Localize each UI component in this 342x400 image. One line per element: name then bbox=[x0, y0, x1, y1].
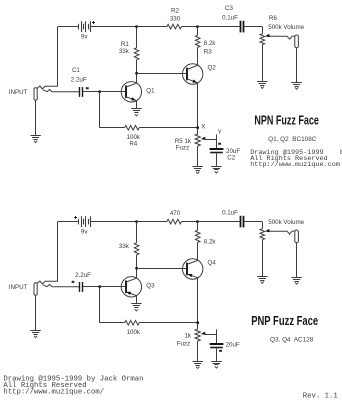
svg-text:C3: C3 bbox=[225, 5, 233, 12]
potentiometer R5 1k Fuzz bbox=[195, 128, 206, 167]
wire: rail to output cap bbox=[198, 221, 240, 223]
wire: fuzz wiper bbox=[205, 329, 217, 334]
label 0.1uF bbox=[222, 210, 238, 217]
wire: battery drop to input jack bbox=[57, 27, 59, 87]
node: rail / R3 / output cap bbox=[196, 25, 199, 28]
potentiometer 1k Fuzz bbox=[195, 323, 206, 362]
label Fuzz bbox=[176, 144, 189, 151]
polarity mark input cap bbox=[72, 281, 75, 283]
label R4 bbox=[129, 141, 137, 148]
polarity mark 20uF cap bbox=[219, 350, 222, 352]
svg-text:R3: R3 bbox=[204, 48, 212, 55]
potentiometer R6 500k Volume bbox=[260, 34, 270, 81]
svg-text:2.2uF: 2.2uF bbox=[71, 76, 87, 83]
label 500k Volume bbox=[268, 219, 304, 226]
svg-text:C2: C2 bbox=[227, 155, 235, 162]
ground: fuzz pot bbox=[193, 362, 203, 369]
wire: Q1 emitter to ground bbox=[136, 101, 138, 109]
transistor Q4 bbox=[183, 259, 203, 279]
potentiometer 500k Volume bbox=[260, 229, 270, 277]
input jack bbox=[34, 281, 79, 295]
transistor Q1 bbox=[121, 82, 141, 102]
wire: rail to output cap bbox=[198, 26, 240, 28]
label C1 bbox=[72, 67, 80, 74]
node: rail / 33k bbox=[135, 220, 138, 223]
wire: Q3 collector to Q4 base bbox=[137, 268, 187, 270]
label 100k bbox=[127, 134, 141, 141]
ground: volume pot bbox=[257, 277, 267, 284]
label 2.2uF bbox=[71, 76, 87, 83]
wire: Q4 emitter to node X bbox=[197, 278, 199, 323]
capacitor C2 20uF bbox=[210, 139, 224, 166]
node: Q1 base / feedback bbox=[98, 90, 101, 93]
svg-text:500k Volume: 500k Volume bbox=[268, 24, 304, 31]
label 470 bbox=[170, 210, 181, 217]
label 0.1uF bbox=[222, 15, 238, 22]
resistor R1 33k bbox=[134, 27, 139, 74]
label X bbox=[201, 124, 205, 131]
label 8.2k bbox=[204, 40, 217, 47]
label 9v bbox=[81, 229, 88, 236]
svg-text:1k: 1k bbox=[184, 332, 191, 339]
label Q3 bbox=[146, 282, 155, 289]
label 20uF bbox=[226, 342, 240, 349]
output jack bbox=[269, 230, 298, 277]
label Q3, Q4 AC128 bbox=[270, 337, 314, 344]
text copyright (right column) bbox=[250, 149, 342, 169]
label Q4 bbox=[208, 260, 217, 267]
wire: supply rail left (NPN) bbox=[58, 26, 137, 28]
capacitor 0.1uF bbox=[241, 216, 263, 229]
label R1 bbox=[121, 41, 129, 48]
svg-text:9v: 9v bbox=[81, 229, 88, 236]
svg-text:Y: Y bbox=[218, 129, 222, 136]
svg-text:Q2: Q2 bbox=[208, 65, 217, 72]
wire: supply rail left (PNP) bbox=[58, 221, 137, 223]
ground: C2 bbox=[211, 362, 221, 369]
svg-text:0.1uF: 0.1uF bbox=[222, 15, 238, 22]
node: Q1 collector / Q2 base bbox=[135, 72, 138, 75]
transistor Q2 bbox=[183, 64, 203, 84]
label Y bbox=[218, 129, 222, 136]
svg-text:NPN Fuzz Face: NPN Fuzz Face bbox=[254, 114, 319, 128]
svg-text:Q1: Q1 bbox=[146, 87, 155, 94]
ground: output jack bbox=[291, 83, 301, 90]
label 8.2k bbox=[204, 239, 217, 246]
svg-text:100k: 100k bbox=[127, 329, 141, 336]
wire: input jack sleeve to ground bbox=[35, 100, 37, 135]
node: fuzz pot top bbox=[196, 321, 199, 324]
svg-text:INPUT: INPUT bbox=[9, 284, 28, 291]
title NPN Fuzz Face bbox=[254, 114, 319, 128]
svg-text:R6: R6 bbox=[269, 15, 277, 22]
label R3 bbox=[204, 48, 212, 55]
resistor 33k bbox=[134, 222, 139, 269]
node: rail / R1 bbox=[135, 25, 138, 28]
ground: C2 bbox=[211, 167, 221, 174]
wire: base node to Q3 bbox=[100, 286, 126, 288]
wire: Q3 collector bbox=[136, 268, 138, 278]
label 500k Volume bbox=[268, 24, 304, 31]
label Q1 bbox=[146, 87, 155, 94]
svg-text:Q3, Q4 AC128: Q3, Q4 AC128 bbox=[270, 337, 314, 344]
label 100k bbox=[127, 329, 141, 336]
output jack bbox=[269, 35, 298, 82]
svg-text:20uF: 20uF bbox=[226, 342, 240, 349]
svg-text:Fuzz: Fuzz bbox=[177, 341, 190, 348]
label Fuzz bbox=[177, 341, 190, 348]
resistor R3 8.2k bbox=[195, 27, 200, 66]
svg-text:9v: 9v bbox=[81, 34, 88, 41]
svg-text:INPUT: INPUT bbox=[9, 89, 28, 96]
svg-text:2.2uF: 2.2uF bbox=[75, 272, 91, 279]
svg-text:R4: R4 bbox=[129, 141, 137, 148]
ground: input jack bbox=[30, 136, 40, 143]
label 33k bbox=[119, 243, 130, 250]
ground: fuzz pot bbox=[193, 167, 203, 174]
wire: input jack sleeve to ground bbox=[35, 295, 37, 330]
svg-text:33k: 33k bbox=[119, 48, 130, 55]
label INPUT bbox=[9, 89, 28, 96]
svg-text:C1: C1 bbox=[72, 67, 80, 74]
svg-text:8.2k: 8.2k bbox=[204, 40, 217, 47]
svg-text:330: 330 bbox=[170, 16, 181, 23]
svg-text:R2: R2 bbox=[171, 8, 179, 15]
svg-text:Rev. 1.1: Rev. 1.1 bbox=[303, 392, 339, 400]
capacitor C3 0.1uF bbox=[241, 21, 263, 34]
resistor R2 330 bbox=[137, 24, 198, 29]
svg-text:Q4: Q4 bbox=[208, 260, 217, 267]
node: rail / R3 / output cap bbox=[196, 220, 199, 223]
label 330 bbox=[170, 16, 181, 23]
wire: fuzz wiper bbox=[205, 134, 217, 139]
svg-text:Fuzz: Fuzz bbox=[176, 144, 189, 151]
wire: battery drop to input jack bbox=[57, 222, 59, 282]
svg-text:X: X bbox=[201, 124, 205, 131]
input jack bbox=[34, 86, 79, 100]
svg-text:Q1, Q2 BC108C: Q1, Q2 BC108C bbox=[268, 136, 317, 143]
label INPUT bbox=[9, 284, 28, 291]
resistor 8.2k bbox=[195, 222, 200, 261]
wire: Q2 emitter to node X bbox=[197, 83, 199, 128]
text Rev. 1.1 bbox=[303, 392, 339, 400]
label 33k bbox=[119, 48, 130, 55]
capacitor 2.2uF bbox=[80, 282, 100, 292]
capacitor C1 2.2uF bbox=[80, 87, 100, 97]
ground: input jack bbox=[30, 331, 40, 338]
polarity mark C2 bbox=[218, 143, 221, 145]
text copyright (bottom left) bbox=[3, 376, 143, 397]
svg-text:Q3: Q3 bbox=[146, 282, 155, 289]
label 1k bbox=[184, 332, 191, 339]
svg-text:http://www.muzique.com: http://www.muzique.com bbox=[250, 161, 340, 169]
ground: Q1 emitter bbox=[131, 109, 141, 117]
node: Q3 base / feedback bbox=[98, 285, 101, 288]
battery 9v (PNP) bbox=[74, 216, 90, 227]
ground: output jack bbox=[291, 278, 301, 285]
title PNP Fuzz Face bbox=[251, 314, 318, 328]
label Q2 bbox=[208, 65, 217, 72]
label R5 1k bbox=[175, 138, 192, 145]
resistor R4 100k bbox=[100, 92, 198, 130]
wire: Q1 collector to Q2 base bbox=[137, 73, 187, 75]
wire: Q3 emitter to ground bbox=[136, 296, 138, 304]
label C2 bbox=[227, 155, 235, 162]
label R2 bbox=[171, 8, 179, 15]
label 9v bbox=[81, 34, 88, 41]
node: Q3 collector / Q4 base bbox=[135, 267, 138, 270]
transistor Q3 bbox=[121, 277, 141, 297]
svg-text:http://www.muzique.com/: http://www.muzique.com/ bbox=[3, 388, 104, 396]
wire: Q1 collector bbox=[136, 73, 138, 83]
label 20uF bbox=[226, 148, 240, 155]
svg-text:0.1uF: 0.1uF bbox=[222, 210, 238, 217]
label 2.2uF bbox=[75, 272, 91, 279]
label R6 bbox=[269, 15, 277, 22]
ground: volume pot bbox=[257, 82, 267, 89]
label C3 bbox=[225, 5, 233, 12]
polarity mark C1 bbox=[86, 87, 89, 89]
svg-text:PNP Fuzz Face: PNP Fuzz Face bbox=[251, 314, 318, 328]
svg-text:500k Volume: 500k Volume bbox=[268, 219, 304, 226]
capacitor 20uF bbox=[210, 334, 224, 361]
resistor 470 bbox=[137, 219, 198, 224]
svg-text:470: 470 bbox=[170, 210, 181, 217]
svg-text:33k: 33k bbox=[119, 243, 130, 250]
battery 9v (NPN) bbox=[79, 21, 96, 32]
node X bbox=[196, 126, 199, 129]
resistor 100k bbox=[100, 287, 198, 325]
wire: base node to Q1 bbox=[100, 91, 126, 93]
svg-text:8.2k: 8.2k bbox=[204, 239, 217, 246]
label Q1, Q2 BC108C bbox=[268, 136, 317, 143]
ground: Q3 emitter bbox=[131, 304, 141, 312]
